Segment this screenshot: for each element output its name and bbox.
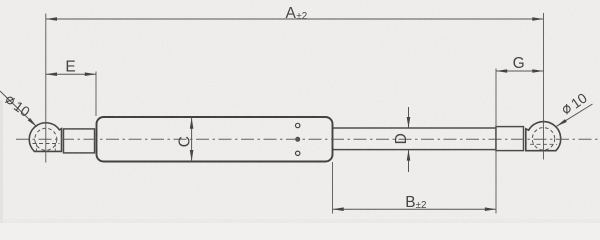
cylinder body	[97, 117, 333, 162]
left connector block	[64, 129, 95, 153]
scan edge shading bottom	[0, 219, 600, 223]
left ball socket housing outline	[29, 123, 61, 152]
left diameter leader line	[0, 91, 37, 127]
left ball dashed socket sides	[36, 144, 38, 152]
centerline (horizontal dash-dot axis)	[16, 138, 600, 140]
left ball dashed chord	[33, 143, 60, 145]
cylinder end holes (3 small circles)	[296, 123, 300, 127]
dimension G line	[496, 70, 544, 72]
right diameter label ⌀10	[560, 90, 591, 118]
right ball dashed chord	[530, 143, 557, 145]
dimension E line	[46, 73, 96, 75]
right ball inner dashed circle	[532, 128, 554, 150]
right ball socket housing outline	[526, 122, 561, 151]
dimension C line (cylinder diameter)	[191, 118, 193, 162]
right connector block	[496, 127, 524, 151]
scan edge shading left	[0, 100, 3, 223]
dimension D line (rod diameter)	[408, 107, 410, 128]
left ball inner dashed circle	[35, 128, 57, 150]
left vertical centerline / extension line for A and E	[45, 14, 47, 163]
dimension A line	[46, 18, 544, 20]
right diameter leader line	[557, 104, 593, 126]
dimension B line	[333, 208, 497, 210]
extension line G left / B right	[495, 69, 497, 214]
extension line E right (cylinder left edge)	[95, 72, 97, 117]
right vertical centerline / extension line for A and G	[543, 13, 545, 160]
piston rod	[330, 128, 496, 150]
extension line B left (cylinder right edge)	[332, 162, 334, 214]
left diameter label ⌀10	[3, 92, 33, 120]
